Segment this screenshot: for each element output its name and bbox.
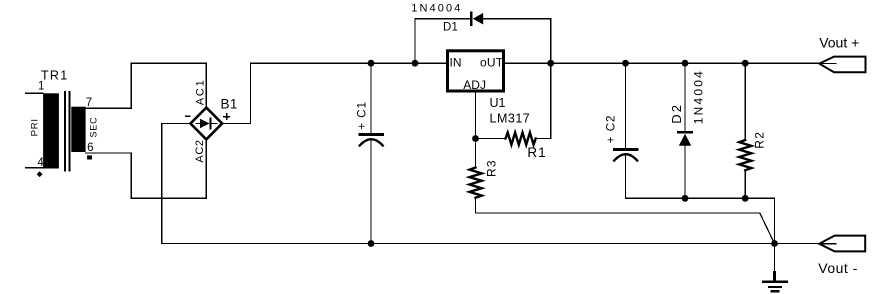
junction node star ground xyxy=(771,240,778,247)
wire pin4 stub xyxy=(26,167,44,169)
wire R2 bottom lead xyxy=(744,170,746,198)
wire top rail to regulator xyxy=(250,62,446,64)
wire bridge plus out xyxy=(222,122,250,124)
B1 inner diode triangle xyxy=(200,119,210,128)
C2 curved plate xyxy=(614,154,637,160)
diode D1 xyxy=(411,3,550,64)
R2 zigzag xyxy=(739,140,751,170)
wire R1 left lead xyxy=(476,137,506,139)
resistor R2 xyxy=(739,63,766,198)
svg-text:D2: D2 xyxy=(669,103,684,124)
wire ADJ drop xyxy=(475,92,477,168)
wire C1 bottom lead xyxy=(370,141,372,244)
wire mid bottom rail xyxy=(626,197,775,199)
svg-text:D1: D1 xyxy=(443,22,458,34)
wire D1 left riser xyxy=(414,19,416,64)
D2 triangle xyxy=(679,134,691,146)
svg-text:+ C2: + C2 xyxy=(606,115,618,144)
wire R1 right lead xyxy=(536,137,551,139)
B1 diamond body xyxy=(191,108,223,140)
svg-text:Vout -: Vout - xyxy=(818,260,858,276)
svg-text:U1: U1 xyxy=(490,96,506,110)
junction node D2 bottom xyxy=(682,195,689,202)
resistor R3 xyxy=(470,159,499,213)
Vout- flag xyxy=(819,236,865,252)
TR1 core xyxy=(64,92,66,171)
D1 cathode bar xyxy=(470,13,473,25)
regulator U1 LM317 xyxy=(448,51,531,126)
junction node C1 bottom xyxy=(368,240,375,247)
wire ground stub xyxy=(774,244,776,273)
wire plus riser xyxy=(249,63,251,123)
capacitor C2 xyxy=(606,63,638,198)
wire R2 top lead xyxy=(744,63,746,140)
D1 triangle xyxy=(473,13,483,25)
ground xyxy=(764,244,787,292)
wire negative drop xyxy=(161,123,163,243)
wire D2 top lead xyxy=(684,63,686,131)
R1 zigzag xyxy=(506,133,536,145)
D2 cathode bar xyxy=(678,131,691,133)
connector Vout - xyxy=(818,236,865,277)
transformer TR1 xyxy=(29,69,98,177)
Vout+ stub xyxy=(819,63,836,65)
C1 curved plate xyxy=(360,139,383,145)
svg-text:1N4004: 1N4004 xyxy=(411,3,462,15)
B1 inner diode lead left xyxy=(196,123,200,125)
svg-text:PRI: PRI xyxy=(29,118,40,136)
wire R3 to ground run xyxy=(476,212,760,214)
svg-text:B1: B1 xyxy=(221,96,238,111)
wire C2 bottom lead xyxy=(625,156,627,199)
resistor R1 xyxy=(476,63,551,160)
TR1 secondary winding xyxy=(71,107,85,152)
junction node R2 bottom xyxy=(742,195,749,202)
svg-text:SEC: SEC xyxy=(89,117,99,138)
junction node R2 top xyxy=(742,60,749,67)
label minus xyxy=(186,115,190,117)
wire star point drop xyxy=(774,198,776,243)
svg-text:+ C1: + C1 xyxy=(357,101,369,130)
svg-text:4: 4 xyxy=(37,157,44,169)
wire pin7 to riser xyxy=(86,107,132,109)
wire riser down xyxy=(130,153,132,198)
svg-text:AC1: AC1 xyxy=(194,78,206,105)
wire bridge AC1 drop xyxy=(205,63,207,107)
ground bar 3 xyxy=(772,290,779,292)
junction node C2 top xyxy=(622,60,629,67)
Vout- stub xyxy=(819,243,836,245)
diode D2 xyxy=(669,63,706,198)
Vout+ flag xyxy=(819,57,865,73)
wire R3 bottom lead xyxy=(475,198,477,213)
wire pin6 to riser xyxy=(86,152,132,154)
wire bridge minus out xyxy=(162,122,191,124)
svg-text:oUT: oUT xyxy=(480,56,504,70)
junction node ADJ xyxy=(472,135,479,142)
polarity diamond marker xyxy=(37,171,43,177)
capacitor C1 xyxy=(357,63,383,243)
svg-text:R2: R2 xyxy=(753,131,767,149)
wire C2 top lead xyxy=(625,63,627,148)
svg-text:Vout +: Vout + xyxy=(819,35,859,51)
wire C1 top lead xyxy=(370,63,372,133)
junction node D1 left xyxy=(412,60,419,67)
label plus xyxy=(224,116,229,118)
wire R1 riser to OUT xyxy=(550,63,552,138)
svg-text:IN: IN xyxy=(450,56,462,70)
B1 inner diode lead right xyxy=(212,123,218,125)
junction node OUT xyxy=(547,60,554,67)
C1 positive plate xyxy=(360,133,383,136)
junction node C1 top xyxy=(368,60,375,67)
wire D1 top left xyxy=(415,18,470,20)
wire top rail from regulator xyxy=(505,62,820,64)
wire pin1 stub xyxy=(26,92,44,94)
svg-text:ADJ: ADJ xyxy=(463,78,486,92)
TR1 primary winding xyxy=(43,93,59,168)
B1 inner diode cathode bar xyxy=(210,119,212,129)
svg-text:R3: R3 xyxy=(484,159,498,177)
wire bottom rail xyxy=(162,243,820,245)
wire D1 right drop xyxy=(550,19,552,64)
wire to bridge top xyxy=(131,62,206,64)
U1 box xyxy=(448,51,504,91)
R3 zigzag xyxy=(470,168,482,198)
svg-text:TR1: TR1 xyxy=(41,69,69,83)
wire D2 bottom lead xyxy=(684,146,686,199)
svg-text:1: 1 xyxy=(38,80,44,92)
wire bridge AC2 rise xyxy=(205,139,207,198)
wire D1 top right xyxy=(483,18,551,20)
svg-text:AC2: AC2 xyxy=(194,139,206,162)
wire diagonal to star point xyxy=(760,213,775,244)
ground bar 2 xyxy=(769,286,781,288)
C2 positive plate xyxy=(615,148,638,151)
bridge rectifier B1 xyxy=(186,78,238,162)
wire riser to AC1 level xyxy=(130,63,132,108)
svg-text:6: 6 xyxy=(87,142,93,154)
svg-text:LM317: LM317 xyxy=(490,111,531,125)
connector Vout + xyxy=(819,35,865,73)
ground bar 1 xyxy=(764,280,787,283)
junction node D2 top xyxy=(682,60,689,67)
svg-text:7: 7 xyxy=(86,97,92,109)
svg-text:R1: R1 xyxy=(527,145,546,160)
wire to bridge bottom xyxy=(131,197,206,199)
polarity square marker xyxy=(87,155,92,159)
svg-text:1N4004: 1N4004 xyxy=(692,69,706,124)
